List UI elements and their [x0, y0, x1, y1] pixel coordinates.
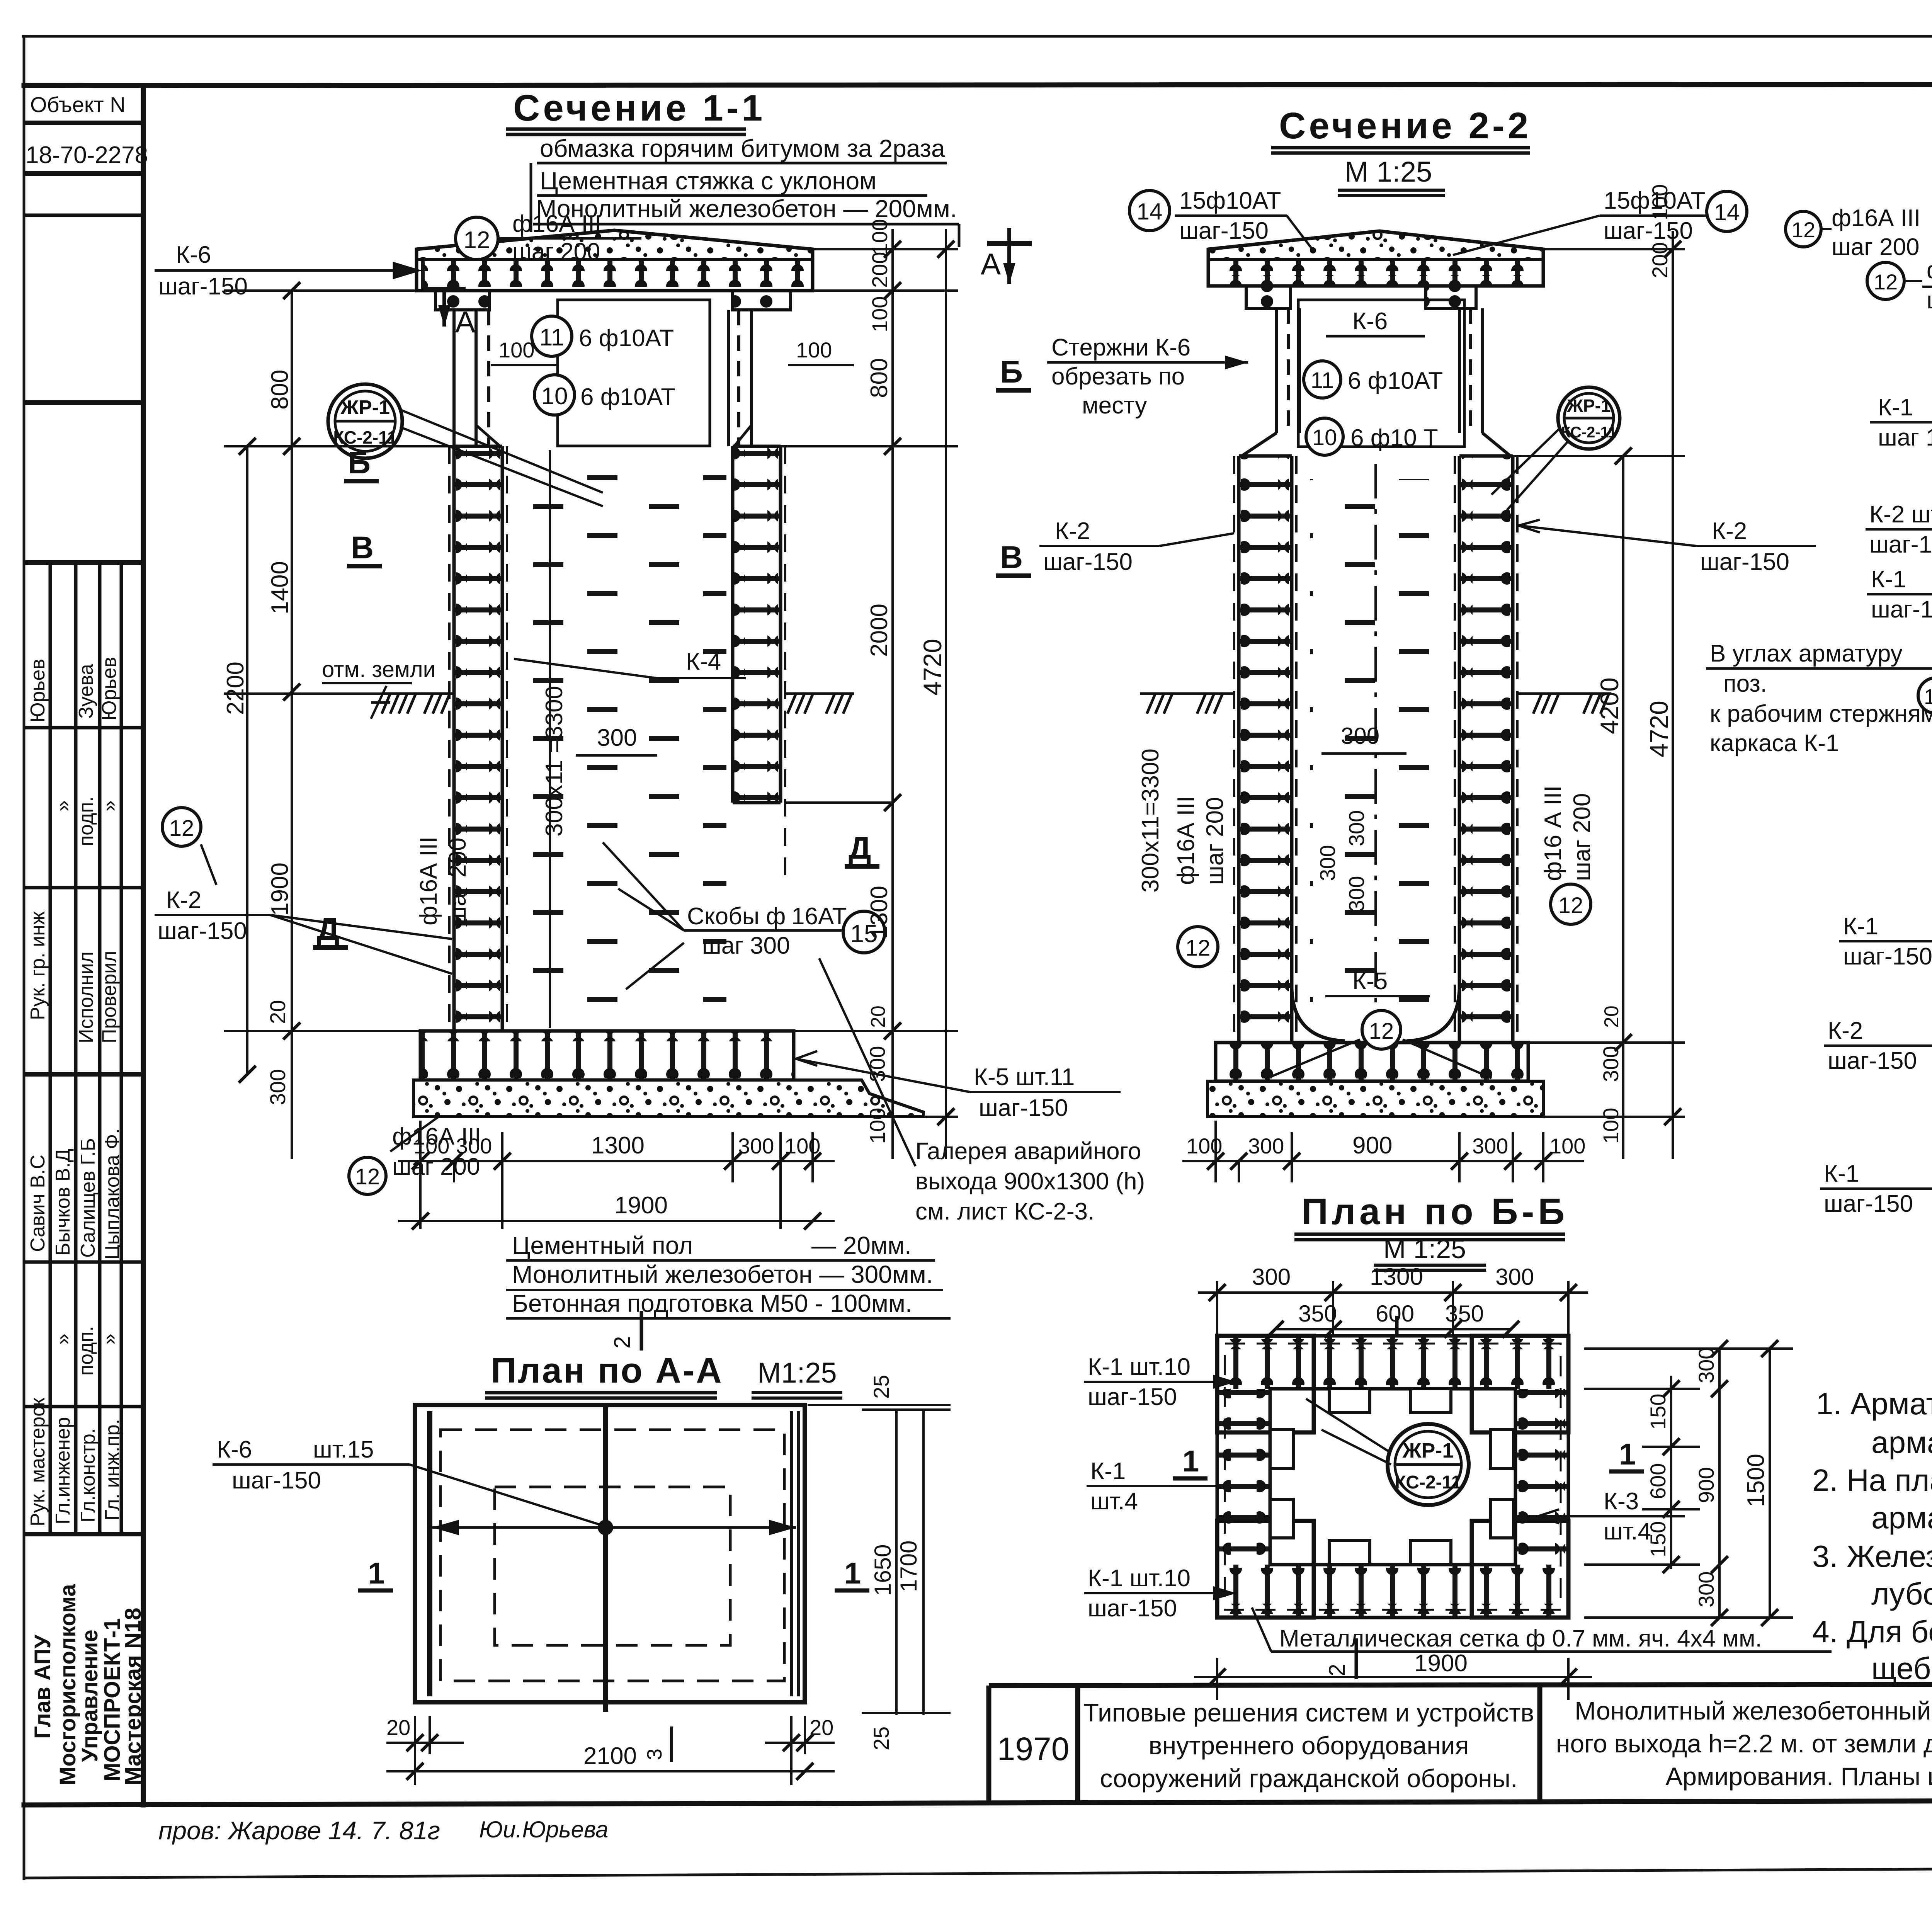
sidebar row line under 18-70-2278 — [24, 171, 143, 176]
svg-text:300: 300 — [1341, 723, 1379, 749]
sidebar column divider 3 — [98, 563, 102, 1534]
svg-text:600: 600 — [1646, 1463, 1670, 1499]
svg-text:шаг-150: шаг-150 — [1843, 943, 1932, 970]
svg-text:12: 12 — [1558, 893, 1583, 918]
А-А right dims — [808, 1405, 951, 1715]
ЖР-1 circle 2-2 — [1558, 387, 1620, 449]
circled 12 right wall 2-2 — [1551, 884, 1591, 924]
svg-text:шаг 150: шаг 150 — [1878, 424, 1932, 451]
svg-text:6 ф10АТ: 6 ф10АТ — [579, 325, 674, 352]
svg-text:25: 25 — [869, 1726, 893, 1750]
cap slab 2-2 outline — [1208, 231, 1543, 286]
svg-text:4. Для безопалубочного бе: 4. Для безопалубочного бетонирования кру… — [1812, 1614, 1932, 1649]
svg-text:ф16А III: ф16А III — [1173, 796, 1199, 885]
circled 12 bottom-left 1-1 with label — [349, 1157, 386, 1194]
circled 12 left wall 2-2 — [1178, 927, 1218, 967]
svg-text:шаг-150: шаг-150 — [1871, 596, 1932, 623]
circled 10 2-2 — [1306, 418, 1343, 455]
box around 6ф10 labels 1-1 — [558, 300, 710, 446]
svg-text:Скобы ф: Скобы ф — [687, 903, 786, 930]
svg-text:20: 20 — [867, 1005, 889, 1028]
svg-text:300: 300 — [1599, 1046, 1623, 1082]
svg-text:6 ф10АТ: 6 ф10АТ — [1348, 367, 1443, 394]
svg-text:Сечение 1-1: Сечение 1-1 — [513, 87, 765, 129]
svg-text:16АТ: 16АТ — [791, 903, 847, 930]
svg-text:Зуева: Зуева — [75, 664, 97, 719]
svg-text:Сечение 2-2: Сечение 2-2 — [1279, 105, 1531, 146]
leader box for top labels — [530, 163, 532, 232]
sidebar rotated names group1 — [27, 657, 121, 1043]
svg-text:150: 150 — [1646, 1521, 1670, 1557]
circled 11 — [532, 316, 572, 356]
svg-text:К-2: К-2 — [1828, 1017, 1863, 1044]
Б-Б corner blocks — [1217, 1336, 1568, 1618]
svg-text:К-2: К-2 — [166, 887, 201, 913]
svg-text:К-5: К-5 — [1352, 968, 1388, 995]
svg-text:300: 300 — [1694, 1572, 1718, 1607]
svg-text:Юрьев: Юрьев — [98, 657, 121, 721]
svg-text:350: 350 — [1445, 1301, 1484, 1327]
Б-Б ring right band — [1515, 1389, 1568, 1565]
svg-text:см. лист КС-2-3.: см. лист КС-2-3. — [915, 1198, 1094, 1225]
svg-text:2000: 2000 — [866, 604, 893, 657]
svg-text:100: 100 — [1648, 184, 1672, 220]
circled 11 2-2 — [1304, 361, 1341, 398]
svg-text:12: 12 — [1369, 1019, 1394, 1044]
circled 14 right 2-2 — [1707, 191, 1747, 231]
svg-text:Б: Б — [348, 445, 371, 480]
svg-text:Монолитный железобетонный огол: Монолитный железобетонный оголовок авари… — [1575, 1696, 1932, 1725]
svg-text:пров: Жарове 14. 7. 81г: пров: Жарове 14. 7. 81г — [158, 1816, 440, 1845]
svg-text:100: 100 — [1549, 1134, 1585, 1158]
svg-text:300: 300 — [265, 1069, 290, 1105]
svg-text:ЖР-1: ЖР-1 — [1402, 1439, 1454, 1462]
sidebar row line — [24, 1405, 143, 1408]
svg-text:12: 12 — [1874, 270, 1898, 294]
svg-text:К-1: К-1 — [1824, 1160, 1859, 1187]
cap left corner block — [435, 291, 490, 310]
svg-text:К-6: К-6 — [176, 242, 211, 268]
sheet thin bottom edge line — [24, 1866, 1932, 1878]
svg-text:»: » — [98, 800, 121, 811]
svg-text:350: 350 — [1298, 1301, 1337, 1327]
svg-text:шаг-150: шаг-150 — [1604, 218, 1693, 244]
frame bottom thick line — [24, 1800, 1932, 1805]
svg-text:14: 14 — [1137, 199, 1163, 225]
svg-text:14: 14 — [1714, 199, 1740, 225]
svg-text:внутреннего оборудования: внутреннего оборудования — [1149, 1731, 1469, 1760]
svg-text:15ф10АТ: 15ф10АТ — [1179, 187, 1281, 214]
svg-text:150: 150 — [1646, 1394, 1670, 1430]
sidebar column divider 1 — [49, 563, 52, 1534]
svg-text:обмазка горячим битумом за 2ра: обмазка горячим битумом за 2раза — [540, 134, 945, 162]
sidebar row line — [24, 214, 143, 217]
svg-text:Монолитный железобетон — 300м: Монолитный железобетон — 300мм. — [512, 1260, 933, 1288]
svg-text:100: 100 — [784, 1134, 820, 1158]
svg-text:шаг-150: шаг-150 — [979, 1095, 1068, 1121]
circled 15 — [843, 911, 885, 953]
svg-text:2200: 2200 — [222, 662, 249, 715]
cap slab 1-1 outline — [417, 230, 813, 291]
svg-text:Гл.констр.: Гл.констр. — [77, 1428, 99, 1522]
svg-text:К-3: К-3 — [1604, 1488, 1639, 1515]
ground level hatch right of 1-1 — [785, 694, 854, 714]
А-А center horizontal line with arrows — [432, 1526, 796, 1529]
svg-text:Армирования. Планы и сечени: Армирования. Планы и сечения. — [1665, 1762, 1932, 1791]
svg-text:подп.: подп. — [75, 1326, 97, 1376]
circled 12 bottom middle 2-2 — [1362, 1010, 1401, 1049]
svg-text:800: 800 — [267, 370, 293, 410]
ground hatch right of 2-2 — [1517, 694, 1611, 714]
А-А dashed rect outer — [440, 1430, 784, 1681]
svg-text:М 1:25: М 1:25 — [1345, 156, 1432, 188]
circled 14 left 2-2 — [1129, 191, 1170, 231]
В-В label 12 ф16АIII шаг200 left — [1867, 262, 1904, 299]
svg-text:20: 20 — [265, 1000, 290, 1024]
svg-text:18-70-2278: 18-70-2278 — [26, 142, 148, 168]
svg-text:В: В — [351, 530, 374, 565]
svg-text:20: 20 — [1600, 1005, 1623, 1028]
svg-text:К-2: К-2 — [1712, 518, 1747, 544]
svg-text:»: » — [52, 1334, 74, 1345]
svg-text:ф16А III: ф16А III — [1927, 257, 1932, 284]
svg-text:1700: 1700 — [896, 1541, 922, 1592]
svg-text:6 ф10АТ: 6 ф10АТ — [580, 384, 675, 410]
svg-text:300: 300 — [1472, 1134, 1508, 1158]
svg-text:Галерея аварийного: Галерея аварийного — [915, 1138, 1141, 1165]
svg-text:К-4: К-4 — [686, 648, 721, 675]
svg-text:ф16А III: ф16А III — [415, 837, 442, 925]
svg-text:К-2: К-2 — [1055, 518, 1090, 544]
svg-text:Цементный пол: Цементный пол — [512, 1232, 693, 1259]
svg-text:11: 11 — [539, 324, 564, 351]
leaders from скобы label to dashes — [603, 842, 684, 989]
svg-text:М 1:25: М 1:25 — [1383, 1234, 1466, 1264]
cap slab 1-1: speckled top band — [417, 230, 813, 260]
svg-text:1: 1 — [368, 1556, 384, 1590]
sheet thin top edge line — [23, 35, 1932, 38]
cap 2-2 left under-block — [1246, 286, 1291, 308]
sidebar row line — [24, 1260, 143, 1264]
right dim chains 2-2 — [1513, 231, 1685, 1159]
flare diagonal at ladder top — [476, 425, 502, 448]
Б-Б ring left band — [1217, 1389, 1270, 1565]
svg-text:12: 12 — [169, 816, 194, 841]
svg-text:Рук. мастерск: Рук. мастерск — [27, 1398, 49, 1526]
svg-text:300: 300 — [597, 725, 637, 751]
svg-text:План по А-А: План по А-А — [491, 1351, 723, 1390]
svg-text:100: 100 — [867, 219, 892, 255]
circled 12 top with label 1-1 — [456, 217, 498, 260]
svg-text:600: 600 — [1376, 1301, 1414, 1327]
right wall ladder 1-1 upper part — [733, 446, 781, 803]
svg-text:1300: 1300 — [866, 886, 893, 939]
svg-text:шаг 200: шаг 200 — [1202, 797, 1228, 885]
right dim chain 1-1 — [781, 229, 958, 1159]
svg-text:шаг-150: шаг-150 — [1828, 1048, 1917, 1074]
svg-text:План по Б-Б: План по Б-Б — [1301, 1191, 1568, 1232]
sidebar column divider 4 — [120, 563, 123, 1534]
sheet thin left edge line — [23, 36, 26, 1879]
svg-text:К-1: К-1 — [1843, 913, 1878, 940]
svg-text:1300: 1300 — [1370, 1264, 1423, 1290]
svg-text:300х11 =3300: 300х11 =3300 — [541, 686, 568, 837]
svg-text:— 20мм.: — 20мм. — [811, 1232, 912, 1259]
svg-text:Гл.инженер: Гл.инженер — [52, 1417, 74, 1524]
svg-text:4720: 4720 — [1645, 701, 1673, 757]
svg-text:арматуры см. на листе КС: арматуры см. на листе КС-2-8. — [1871, 1425, 1932, 1459]
svg-text:шаг 200: шаг 200 — [512, 238, 600, 265]
А-А bottom dims — [386, 1716, 835, 1785]
svg-text:шаг-150: шаг-150 — [158, 918, 247, 944]
svg-text:КС-2-11: КС-2-11 — [333, 427, 397, 447]
svg-text:1. Арматурные каркасы, специ: 1. Арматурные каркасы, спецификацию и вы… — [1816, 1386, 1932, 1421]
svg-text:12: 12 — [1185, 936, 1211, 961]
svg-text:ф16А III: ф16А III — [1832, 205, 1920, 231]
svg-text:Рук. гр. инж: Рук. гр. инж — [27, 911, 49, 1020]
svg-text:1970: 1970 — [997, 1731, 1070, 1767]
svg-text:шаг-150: шаг-150 — [1088, 1595, 1177, 1622]
svg-text:1: 1 — [1619, 1437, 1636, 1471]
svg-text:1900: 1900 — [614, 1192, 668, 1219]
svg-text:выхода 900х1300 (h): выхода 900х1300 (h) — [915, 1168, 1145, 1195]
cap right corner block — [733, 291, 791, 310]
sidebar row line — [24, 726, 143, 730]
ground hatch left of 2-2 — [1140, 694, 1234, 714]
circled 12 left-bottom 1-1 — [162, 808, 201, 846]
svg-text:ного выхода h=2.2 м. от земли: ного выхода h=2.2 м. от земли до верха о… — [1556, 1729, 1932, 1758]
svg-text:12: 12 — [464, 227, 490, 253]
svg-text:шаг-150: шаг-150 — [1869, 531, 1932, 558]
svg-text:»: » — [98, 1334, 121, 1345]
А-А center dot — [598, 1520, 613, 1535]
svg-text:4720: 4720 — [918, 639, 947, 696]
svg-text:К-5 шт.11: К-5 шт.11 — [974, 1064, 1075, 1090]
svg-text:Гл. инж.пр.: Гл. инж.пр. — [101, 1419, 124, 1521]
svg-text:шаг-150: шаг-150 — [1179, 218, 1269, 244]
svg-text:Глав АПУ: Глав АПУ — [30, 1634, 55, 1739]
sidebar org box rotated text — [30, 1584, 146, 1785]
svg-text:шт.4: шт.4 — [1604, 1518, 1651, 1545]
svg-text:100: 100 — [1186, 1134, 1222, 1158]
svg-text:1300: 1300 — [591, 1132, 645, 1159]
svg-text:шаг-150: шаг-150 — [1043, 549, 1133, 575]
svg-text:Объект N: Объект N — [30, 92, 126, 117]
svg-text:100: 100 — [865, 1108, 889, 1144]
circled 12 right of 2-2 cap — [1786, 211, 1821, 247]
А-А center vertical line — [603, 1405, 608, 1712]
svg-text:Мастерская N18: Мастерская N18 — [121, 1607, 146, 1785]
svg-text:ЖР-1: ЖР-1 — [340, 396, 390, 419]
svg-text:В углах арматуру: В углах арматуру — [1710, 640, 1903, 667]
title block top line — [989, 1684, 1932, 1686]
svg-text:К-1 шт.10: К-1 шт.10 — [1088, 1565, 1190, 1592]
bottom dim rows 1-1 — [398, 1121, 835, 1229]
svg-text:шаг 200: шаг 200 — [1927, 287, 1932, 314]
svg-text:Бетонная подготовка М50 -: Бетонная подготовка М50 - 100мм. — [512, 1289, 912, 1317]
left dim chain 1-1 outer — [224, 291, 454, 1159]
svg-text:2. На плане по А-А рас: 2. На плане по А-А распределительная — [1812, 1463, 1932, 1497]
svg-text:1900: 1900 — [267, 862, 293, 916]
svg-text:шаг-150: шаг-150 — [1824, 1191, 1913, 1217]
svg-text:шаг-150: шаг-150 — [1700, 549, 1789, 575]
svg-text:300х11=3300: 300х11=3300 — [1137, 748, 1164, 893]
svg-text:300: 300 — [738, 1134, 774, 1158]
sidebar column divider 2 — [74, 563, 78, 1534]
svg-text:900: 900 — [1694, 1467, 1718, 1503]
title block verticals — [986, 1686, 992, 1804]
cap slab 2-2 rebar band — [1212, 261, 1540, 285]
svg-text:К-6: К-6 — [1352, 308, 1388, 335]
А-А dashed rect inner — [495, 1487, 730, 1645]
svg-text:1: 1 — [844, 1556, 861, 1590]
svg-text:Юи.Юрьева: Юи.Юрьева — [479, 1817, 608, 1842]
svg-text:300: 300 — [865, 1046, 889, 1082]
A section mark right — [987, 228, 1032, 284]
svg-text:шт.4: шт.4 — [1090, 1488, 1138, 1515]
bottom slab 1-1 speckle band — [413, 1080, 923, 1117]
ground level hatch left of 1-1 — [382, 694, 454, 714]
svg-text:900: 900 — [1352, 1132, 1392, 1159]
Б-Б bottom dim 1900 — [1194, 1658, 1592, 1700]
left wall ladder 2-2 — [1239, 456, 1292, 1043]
svg-text:шаг-150: шаг-150 — [158, 273, 248, 300]
Б-Б ring top band — [1217, 1336, 1568, 1389]
svg-text:Бычков В.Д: Бычков В.Д — [52, 1149, 74, 1256]
svg-text:200: 200 — [867, 252, 892, 288]
svg-text:300: 300 — [1252, 1264, 1291, 1290]
svg-text:К-1 шт.10: К-1 шт.10 — [1088, 1354, 1190, 1380]
svg-text:каркаса К-1: каркаса К-1 — [1710, 730, 1839, 757]
sidebar right edge — [141, 85, 146, 1805]
svg-text:шаг 200: шаг 200 — [444, 837, 471, 925]
circled 10 — [534, 375, 575, 415]
svg-text:2: 2 — [1325, 1664, 1350, 1676]
svg-text:2: 2 — [610, 1336, 635, 1349]
svg-text:шаг 300: шаг 300 — [702, 932, 790, 959]
svg-text:щебня не более 30 - 40мм.: щебня не более 30 - 40мм. — [1871, 1651, 1932, 1686]
svg-text:Цементная стяжка с уклоном: Цементная стяжка с уклоном — [540, 167, 876, 195]
neck walls 2-2 — [1239, 308, 1513, 458]
svg-text:100: 100 — [1599, 1108, 1623, 1144]
svg-text:лубочном бетонировании.: лубочном бетонировании. — [1871, 1577, 1932, 1611]
notes text — [1812, 1386, 1932, 1686]
svg-text:4200: 4200 — [1595, 677, 1624, 734]
svg-text:Мосгорисполкома: Мосгорисполкома — [55, 1584, 80, 1785]
svg-text:А: А — [981, 247, 1001, 281]
svg-text:100: 100 — [867, 296, 892, 332]
svg-text:ф16 А III: ф16 А III — [1540, 786, 1566, 881]
svg-text:300: 300 — [1495, 1264, 1534, 1290]
svg-text:шаг 200: шаг 200 — [1569, 793, 1595, 881]
А-А outer square — [415, 1405, 805, 1702]
svg-text:800: 800 — [866, 358, 893, 398]
svg-text:11: 11 — [1311, 368, 1334, 393]
neck left wall 1-1 — [454, 310, 489, 446]
right wall ladder 2-2 — [1459, 456, 1513, 1043]
svg-text:»: » — [52, 800, 74, 811]
sidebar row line — [24, 1072, 143, 1077]
ЖР-1 circle Б-Б — [1388, 1424, 1469, 1505]
svg-text:КС-2-11: КС-2-11 — [1395, 1472, 1462, 1493]
bottom slab 2-2 rebar band — [1216, 1043, 1528, 1081]
svg-text:1650: 1650 — [870, 1544, 896, 1596]
svg-text:М1:25: М1:25 — [757, 1357, 837, 1389]
bottom slab 1-1 rebar band — [420, 1031, 794, 1080]
sidebar row line — [24, 560, 143, 565]
svg-text:К-1: К-1 — [1871, 566, 1906, 593]
interior bottom fillets 2-2 — [1292, 989, 1345, 1041]
svg-text:100: 100 — [413, 1134, 449, 1158]
Б-Б inner key tabs — [1270, 1389, 1514, 1565]
А-А inner thick verticals — [427, 1411, 432, 1696]
sidebar row line under Объект N — [24, 121, 143, 125]
svg-text:200: 200 — [1648, 242, 1672, 278]
svg-text:1400: 1400 — [267, 561, 293, 614]
svg-text:арматура условно не п: арматура условно не показана. — [1871, 1500, 1932, 1535]
Б-Б right dim chains — [1584, 1349, 1793, 1618]
svg-text:К-6: К-6 — [217, 1436, 252, 1463]
svg-text:300: 300 — [1344, 876, 1369, 912]
sidebar row line — [24, 400, 143, 405]
svg-text:подп.: подп. — [75, 796, 97, 846]
svg-text:В: В — [1000, 540, 1023, 575]
svg-text:10: 10 — [1312, 425, 1337, 450]
svg-text:Савич В.С: Савич В.С — [27, 1155, 49, 1252]
svg-text:шаг 200: шаг 200 — [1832, 234, 1920, 260]
svg-text:К-2 шт.3: К-2 шт.3 — [1869, 501, 1932, 528]
svg-text:Б: Б — [1000, 354, 1023, 390]
svg-text:Салищев Г.Б: Салищев Г.Б — [77, 1138, 99, 1258]
Б-Б top dim rows — [1198, 1281, 1588, 1337]
svg-text:ЖР-1: ЖР-1 — [1566, 396, 1611, 416]
svg-text:1900: 1900 — [1414, 1650, 1468, 1677]
svg-text:обрезать по: обрезать по — [1051, 363, 1185, 390]
svg-text:Исполнил: Исполнил — [75, 951, 97, 1043]
svg-text:к рабочим стержням: к рабочим стержням — [1710, 701, 1932, 727]
svg-text:КС-2-11: КС-2-11 — [1561, 424, 1617, 441]
svg-text:шт.15: шт.15 — [313, 1436, 374, 1463]
svg-text:300: 300 — [1248, 1134, 1284, 1158]
svg-text:Д: Д — [849, 830, 871, 866]
A section mark left — [421, 270, 466, 327]
svg-text:Проверил: Проверил — [98, 951, 121, 1043]
svg-text:3: 3 — [643, 1749, 666, 1760]
svg-text:ф16А III: ф16А III — [512, 211, 601, 237]
dimension slash ticks — [239, 241, 1932, 1780]
svg-text:100: 100 — [498, 338, 534, 362]
svg-text:20: 20 — [386, 1715, 410, 1740]
interior tick dashes 2-2 — [1310, 479, 1441, 1020]
bottom slab 2-2 speckle band — [1207, 1081, 1544, 1117]
svg-text:1500: 1500 — [1743, 1454, 1769, 1507]
svg-text:6 ф10 Т: 6 ф10 Т — [1350, 425, 1438, 451]
frame top thick line — [24, 84, 1932, 85]
svg-text:Управление: Управление — [77, 1630, 102, 1762]
svg-text:3. Железобетонный оголовок: 3. Железобетонный оголовок выполняется в… — [1812, 1539, 1932, 1573]
svg-text:10: 10 — [541, 383, 568, 410]
Б-Б ring outlines — [1217, 1336, 1568, 1618]
svg-text:25: 25 — [869, 1375, 893, 1399]
cap slab 2-2 speckled band — [1208, 231, 1543, 260]
svg-text:300: 300 — [1315, 845, 1340, 881]
ЖР-1 КС-2-11 circle 1-1 — [328, 384, 402, 458]
svg-text:сооружений гражданской оборо: сооружений гражданской обороны. — [1100, 1764, 1518, 1793]
svg-text:К-1: К-1 — [1090, 1458, 1126, 1485]
svg-text:2100: 2100 — [583, 1743, 637, 1769]
svg-text:шаг-150: шаг-150 — [1088, 1384, 1177, 1410]
svg-text:Металлическая сетка ф 0.7 м: Металлическая сетка ф 0.7 мм. яч. 4х4 мм… — [1279, 1625, 1762, 1652]
